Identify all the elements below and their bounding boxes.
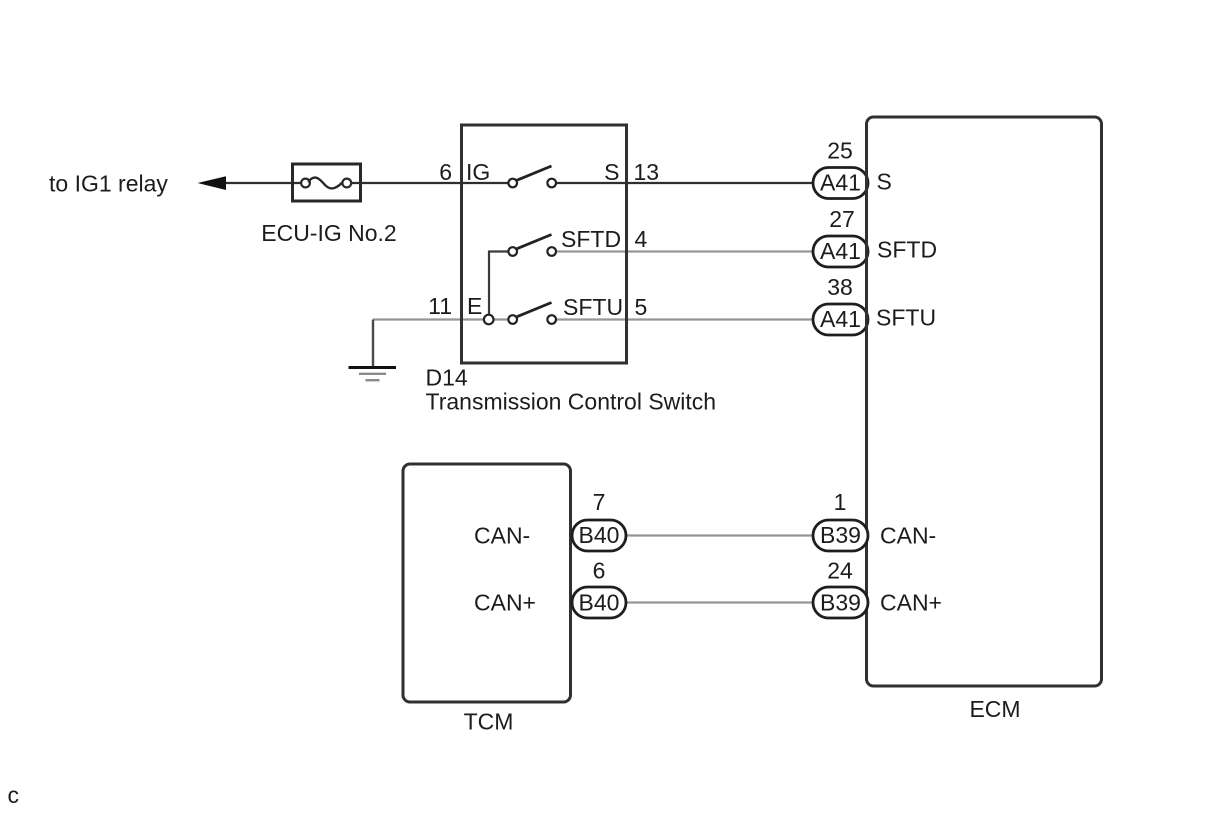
connector B39 pin 24 (813, 587, 868, 618)
svg-text:SFTD: SFTD (561, 226, 621, 252)
svg-text:A41: A41 (820, 170, 861, 196)
svg-text:to IG1 relay: to IG1 relay (49, 171, 168, 197)
svg-text:27: 27 (829, 206, 855, 232)
svg-text:Transmission Control Switch: Transmission Control Switch (426, 389, 717, 415)
svg-text:A41: A41 (820, 238, 861, 264)
svg-text:ECU-IG No.2: ECU-IG No.2 (261, 220, 396, 246)
svg-text:38: 38 (827, 274, 853, 300)
wire: CAN+ B40 to B39 (626, 601, 814, 603)
switch S (row1) (508, 166, 556, 187)
wire: S contact to ECM A41-25 (555, 182, 814, 184)
TCM box (403, 464, 571, 702)
wire: E junction to SFTU contact (493, 318, 509, 320)
svg-text:1: 1 (834, 489, 847, 515)
switch SFTD (row2) (508, 235, 556, 256)
svg-text:IG: IG (466, 159, 490, 185)
svg-text:6: 6 (593, 558, 606, 584)
node E junction circle (484, 315, 494, 325)
svg-text:11: 11 (428, 293, 452, 319)
svg-text:A41: A41 (820, 306, 861, 332)
svg-text:B39: B39 (820, 590, 861, 616)
wire: arrow to fuse (212, 182, 301, 184)
wire: ground to E pin (row3 left) (373, 318, 485, 320)
svg-text:CAN-: CAN- (474, 523, 530, 549)
svg-text:CAN-: CAN- (880, 523, 936, 549)
svg-text:SFTU: SFTU (563, 294, 623, 320)
svg-text:4: 4 (635, 226, 648, 252)
svg-text:24: 24 (827, 558, 853, 584)
svg-text:E: E (467, 293, 482, 319)
svg-text:SFTD: SFTD (877, 237, 937, 263)
svg-text:TCM: TCM (464, 709, 514, 735)
connector A41 pin 38 (813, 304, 868, 335)
svg-text:13: 13 (634, 159, 660, 185)
wire: SFTD contact to ECM A41-27 (555, 250, 814, 252)
svg-text:B40: B40 (579, 590, 620, 616)
svg-text:7: 7 (593, 489, 606, 515)
svg-text:SFTU: SFTU (876, 305, 936, 331)
wire: E vertical stub to SFTD contact (489, 252, 509, 320)
wire: SFTU contact to ECM A41-38 (555, 318, 814, 320)
svg-text:5: 5 (635, 294, 648, 320)
svg-text:25: 25 (827, 138, 853, 164)
wire: fuse to switch box (351, 182, 464, 184)
wire: CAN- B40 to B39 (626, 534, 814, 536)
ECM box (867, 117, 1102, 686)
switch box D14 (462, 125, 627, 363)
svg-text:6: 6 (439, 159, 452, 185)
connector B40 pin 6 (572, 587, 626, 618)
connector B40 pin 7 (572, 520, 626, 551)
switch SFTU (row3) (508, 303, 556, 324)
svg-text:S: S (877, 169, 892, 195)
fuse ECU-IG No.2 (293, 164, 361, 201)
svg-text:B40: B40 (579, 522, 620, 548)
svg-text:B39: B39 (820, 522, 861, 548)
ground (349, 320, 397, 381)
svg-text:CAN+: CAN+ (474, 590, 536, 616)
connector A41 pin 25 (813, 168, 868, 199)
connector A41 pin 27 (813, 236, 868, 267)
svg-text:S: S (604, 159, 619, 185)
connector B39 pin 1 (813, 520, 868, 551)
svg-text:D14: D14 (426, 365, 468, 391)
svg-text:c: c (8, 782, 20, 808)
arrowhead to IG1 relay (198, 176, 227, 190)
svg-text:CAN+: CAN+ (880, 590, 942, 616)
wire: IG to S contact (row1 inside box) (463, 182, 509, 184)
svg-text:ECM: ECM (969, 696, 1020, 722)
